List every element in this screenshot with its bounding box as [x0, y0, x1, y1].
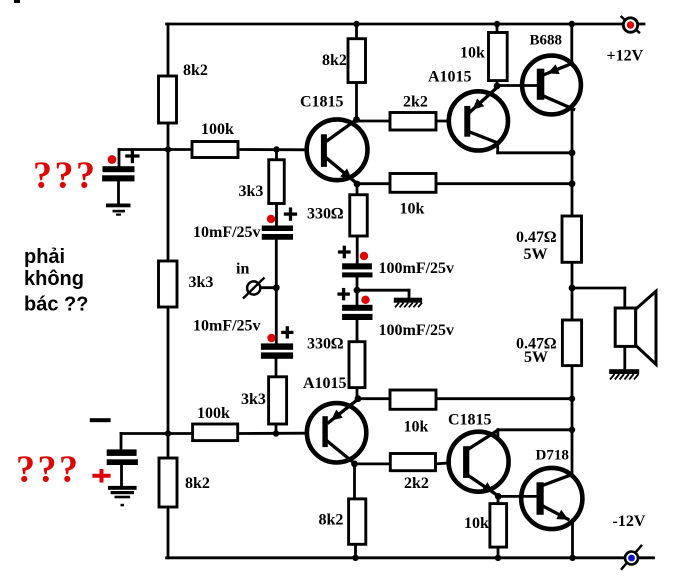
resistor R15 10k (lower feedback)	[390, 390, 436, 409]
node +12V terminal	[607, 16, 644, 65]
transistor Q4 A1015 (lower)	[303, 375, 366, 464]
resistor R3 10k (top)	[489, 33, 508, 81]
resistor R18 10k (bottom vertical)	[490, 504, 507, 547]
wire C1815 lower collector to rail	[496, 430, 499, 439]
wire bottom -12V rail	[167, 556, 654, 559]
resistor R10 0.47 5W (upper)	[562, 216, 582, 262]
svg-text:8k2: 8k2	[185, 475, 210, 492]
wire B688 emitter to +12V rail	[570, 24, 573, 63]
resistor R5 2k2 (upper row)	[390, 113, 436, 131]
svg-text:10k: 10k	[464, 515, 489, 532]
wire A1015 collector to output rail	[496, 143, 499, 153]
capacitor C4 100mF/25v (upper)	[340, 247, 454, 277]
capacitor C2 10mF/25v (upper)	[193, 209, 296, 241]
svg-text:100k: 100k	[197, 405, 230, 422]
capacitor C5 100mF/25v (lower)	[339, 290, 454, 339]
svg-text:100k: 100k	[201, 121, 234, 138]
node -12V terminal	[613, 513, 646, 570]
node: top rail / R2	[353, 21, 359, 27]
wire B688 collector to output rail / 0.47 top	[571, 109, 574, 217]
svg-text:10mF/25v: 10mF/25v	[193, 318, 261, 335]
svg-text:B688: B688	[530, 33, 563, 49]
wire 100k lower row	[168, 432, 193, 435]
svg-text:in: in	[236, 261, 249, 278]
svg-text:A1015: A1015	[303, 375, 347, 392]
svg-text:330Ω: 330Ω	[307, 206, 343, 223]
wire speaker to ground	[623, 346, 626, 369]
wire drop to R2 and C1815 collector column	[355, 24, 358, 120]
svg-text:D718: D718	[536, 448, 569, 464]
node A: 100k / 3k3 / C1815 base	[273, 146, 279, 152]
wire 2k2 upper row	[357, 120, 391, 123]
stray mark top-left	[14, 0, 20, 3]
resistor R7 3k3 (left rail)	[159, 261, 178, 307]
node: between 100mF caps / ground tap	[354, 287, 361, 294]
svg-text:3k3: 3k3	[241, 391, 266, 408]
wire A1015 lower collector to 8k2	[353, 464, 356, 499]
svg-text:8k2: 8k2	[319, 512, 344, 529]
resistor R4 100k (upper row)	[192, 142, 238, 158]
wire below lower 100mF	[356, 320, 359, 342]
node input terminal	[236, 261, 265, 299]
svg-text:100mF/25v: 100mF/25v	[379, 260, 455, 277]
node: left rail / upper 100k row	[165, 146, 171, 152]
svg-text:???: ???	[33, 155, 98, 197]
wire input terminal to junction	[261, 286, 276, 289]
wire left rail	[167, 24, 170, 558]
wire 2k2 lower row	[355, 462, 391, 465]
wire lower-left cap branch	[121, 432, 168, 435]
ground (lower left)	[108, 486, 137, 506]
svg-text:5W: 5W	[524, 349, 548, 366]
node: top rail / B688 emitter	[569, 21, 575, 27]
svg-text:330Ω: 330Ω	[307, 336, 343, 353]
capacitor C1 (upper left electrolytic)	[102, 151, 138, 182]
wire bias column: 3k3 top	[275, 150, 278, 160]
wire D718 emitter down to bottom rail	[571, 520, 574, 558]
wire 10k bottom to rail	[497, 496, 500, 503]
transistor Q6 D718	[521, 448, 582, 530]
node: A1015 emitter / 330 / 10k (lower)	[355, 395, 362, 402]
wire bias column between caps through input junction	[275, 240, 278, 344]
svg-text:phải: phải	[24, 246, 65, 268]
svg-text:bác ??: bác ??	[24, 294, 88, 316]
svg-text:+12V: +12V	[607, 48, 644, 65]
svg-text:3k3: 3k3	[239, 183, 264, 200]
node: output rail / speaker tap	[569, 285, 576, 292]
node: C1815 emitter / D718 base / 10k	[495, 493, 502, 500]
wire mid ground tap	[357, 289, 409, 292]
svg-text:10k: 10k	[460, 45, 485, 62]
wire upper-left cap branch	[119, 148, 168, 151]
resistor R9 10k (upper feedback)	[390, 174, 436, 193]
resistor R8 330 (upper)	[350, 195, 368, 236]
resistor R13 3k3 (bias lower)	[269, 377, 287, 424]
node: C1815 emitter / 330 / 10k	[354, 181, 361, 188]
svg-text:-12V: -12V	[613, 513, 646, 530]
node: A1015 collector / 2k2 / 8k2 (lower)	[351, 461, 358, 468]
resistor R19 8k2 (left bottom)	[159, 458, 177, 507]
wire 10k feedback row upper	[357, 182, 390, 185]
node: bottom rail / 10k	[495, 555, 501, 561]
node: output rail / C1815 collector (lower)	[569, 427, 575, 433]
ground (mid hatched)	[394, 298, 422, 308]
node: output rail / A1015 collector	[569, 149, 576, 156]
wire emitter column upper 330	[356, 184, 359, 195]
ground (speaker hatched)	[609, 369, 639, 379]
resistor R14 100k (lower row)	[193, 424, 238, 441]
node: C1815 collector / R2 / 2k2	[353, 116, 360, 123]
wire drop to R3 and A1015 emitter column	[496, 24, 499, 88]
wire output rail lower to D718 collector	[571, 366, 574, 475]
node B: 100k / 3k3 / A1015 base (lower)	[273, 430, 279, 436]
resistor R12 330 (lower)	[349, 342, 365, 388]
node: left rail / lower 100k row	[165, 430, 171, 436]
resistor R2 8k2 (mid top)	[348, 39, 366, 83]
svg-text:3k3: 3k3	[189, 274, 214, 291]
svg-text:A1015: A1015	[428, 69, 472, 86]
wire 10k to B688 base	[497, 84, 537, 87]
node: output rail / lower 10k row	[569, 396, 575, 402]
transistor Q2 A1015 (upper)	[428, 69, 508, 151]
svg-text:10k: 10k	[400, 201, 425, 218]
svg-text:10mF/25v: 10mF/25v	[193, 224, 261, 241]
transistor Q1 C1815 (upper)	[300, 94, 368, 184]
svg-text:C1815: C1815	[448, 412, 492, 429]
transistor Q3 B688	[522, 33, 581, 115]
ground (upper left)	[106, 204, 131, 216]
wire C1815 emitter junction to D718 base	[498, 495, 537, 498]
svg-text:???: ???	[16, 449, 81, 491]
wire between 100mF caps	[356, 277, 359, 304]
svg-text:không: không	[24, 268, 84, 290]
node: input junction	[273, 284, 280, 291]
transistor Q5 C1815 (lower)	[448, 412, 509, 496]
node: top rail / R3	[494, 21, 500, 27]
node: bottom rail / 8k2	[352, 555, 358, 561]
node: bottom rail / D718 emitter	[569, 555, 575, 561]
wire output rail mid through speaker tap	[571, 262, 574, 320]
node: R3 / A1015 emitter / B688 base	[494, 83, 501, 90]
resistor R1 8k2 (left top)	[159, 76, 177, 123]
svg-text:0.47Ω: 0.47Ω	[516, 229, 556, 246]
wire 100k upper row	[168, 148, 192, 151]
resistor R17 8k2 (mid bottom)	[349, 499, 366, 544]
resistor R11 0.47 5W (lower)	[562, 320, 581, 366]
wire top +12V rail	[167, 23, 644, 26]
svg-text:2k2: 2k2	[403, 94, 428, 111]
speaker	[615, 291, 656, 364]
svg-text:C1815: C1815	[300, 94, 344, 111]
capacitor C6 (lower left electrolytic)	[90, 418, 138, 482]
resistor R16 2k2 (lower row)	[390, 454, 435, 471]
svg-text:8k2: 8k2	[183, 62, 208, 79]
resistor R6 3k3 (bias upper)	[269, 160, 285, 204]
svg-text:100mF/25v: 100mF/25v	[379, 322, 455, 339]
wire 330 bottom to A1015 emitter junction	[356, 388, 359, 400]
node: output rail / upper 10k row	[569, 180, 576, 187]
wire 10k feedback row lower	[358, 397, 390, 400]
svg-text:10k: 10k	[404, 419, 429, 436]
wire below lower 10mF	[275, 359, 278, 377]
svg-text:8k2: 8k2	[322, 52, 347, 69]
svg-text:5W: 5W	[524, 246, 548, 263]
capacitor C3 10mF/25v (lower)	[193, 318, 293, 359]
wire speaker tap	[572, 287, 625, 290]
svg-text:2k2: 2k2	[404, 475, 429, 492]
